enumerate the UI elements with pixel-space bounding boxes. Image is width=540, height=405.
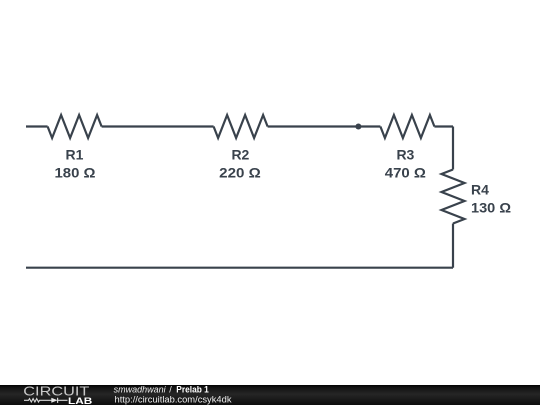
resistor R4	[442, 170, 465, 224]
wire R3 to corner	[434, 125, 453, 127]
svg-text:R1: R1	[66, 147, 84, 163]
svg-text:R2: R2	[231, 147, 249, 163]
svg-text:http://circuitlab.com/csyk4dk: http://circuitlab.com/csyk4dk	[115, 394, 233, 404]
resistor R3	[380, 115, 434, 138]
svg-text:180 Ω: 180 Ω	[55, 165, 96, 181]
logo schematic line: resistor zigzag	[24, 399, 53, 402]
wire top-left lead	[26, 125, 48, 127]
resistor R2	[214, 115, 268, 138]
svg-text:R3: R3	[396, 147, 414, 163]
wire bottom	[26, 267, 453, 269]
svg-text:Prelab 1: Prelab 1	[176, 384, 209, 394]
wire right vertical lower	[452, 224, 454, 268]
resistor R1	[48, 115, 102, 138]
svg-text:470 Ω: 470 Ω	[385, 165, 426, 181]
wire node to R3	[358, 125, 380, 127]
logo diode	[51, 398, 57, 403]
svg-text:R4: R4	[471, 182, 489, 198]
wire right vertical upper	[452, 127, 454, 170]
svg-text:LAB: LAB	[68, 396, 93, 405]
wire R1 to R2	[102, 125, 214, 127]
node junction dot	[355, 124, 361, 130]
svg-text:130 Ω: 130 Ω	[471, 200, 511, 216]
svg-text:smwadhwani: smwadhwani	[114, 384, 167, 394]
wire R2 to node	[268, 125, 358, 127]
svg-text:220 Ω: 220 Ω	[219, 165, 261, 181]
